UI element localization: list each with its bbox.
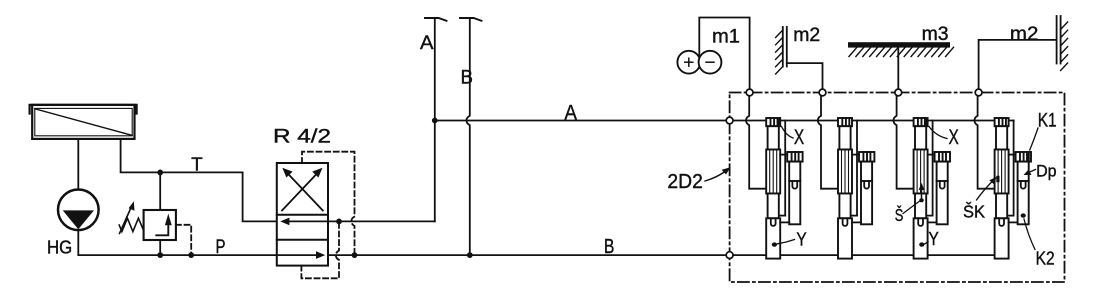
junction pilot to A-side line — [336, 219, 342, 225]
wire tank to pump — [77, 139, 79, 190]
pilot dashed bottom loop — [301, 221, 339, 278]
A manifold line inside box — [730, 120, 1014, 122]
indicator dot K2 in pilot valve 4 — [1021, 213, 1026, 217]
svg-text:X: X — [949, 126, 959, 149]
indicator arrow S in cylinder column 3 — [921, 187, 923, 201]
svg-text:Y: Y — [929, 228, 939, 249]
svg-text:Š: Š — [895, 204, 904, 225]
svg-text:m1: m1 — [712, 25, 740, 47]
indicator dark cell in pilot valve 4 cap (K1) — [1027, 153, 1030, 161]
wire valve middle port to A riser — [328, 220, 435, 222]
svg-text:m2: m2 — [793, 24, 820, 46]
wire m-line into cylinder group 1 — [746, 96, 766, 189]
pilot valve 1 (short element) — [787, 152, 802, 224]
pilot valve 2 (short element) — [859, 152, 874, 224]
port on box left (A) — [726, 117, 733, 124]
wire m-line into cylinder group 3 — [893, 96, 913, 189]
port on box top (m1) — [746, 89, 753, 96]
capped port B riser with jump over A line — [467, 19, 470, 256]
svg-text:X: X — [794, 126, 804, 149]
B manifold line inside box — [730, 254, 1009, 256]
label Y group 1 — [778, 240, 795, 244]
wire branch from A-line to pilot valve 1 — [784, 121, 786, 216]
svg-text:P: P — [216, 237, 226, 258]
pilot valve 3 (short element) — [935, 152, 950, 224]
port on box top (m2) — [819, 89, 826, 96]
svg-text:B: B — [604, 235, 615, 258]
valve middle arrow (to T) — [287, 220, 328, 222]
A line to box — [435, 120, 730, 122]
directional valve R 4/2 — [277, 163, 328, 266]
label Y group 3 — [925, 242, 929, 245]
ceiling anchor m3 — [848, 42, 954, 92]
pilot dashed top loop — [302, 152, 355, 255]
label Dp with leader arrow — [1029, 170, 1036, 173]
svg-text:m2: m2 — [1010, 23, 1039, 45]
junction A riser to A line — [432, 118, 438, 124]
svg-text:Y: Y — [796, 229, 806, 250]
cylinder column 3 (tall element) — [914, 118, 928, 259]
port on box left (B) — [726, 252, 733, 259]
svg-text:A: A — [564, 102, 577, 125]
svg-text:K1: K1 — [1038, 111, 1057, 132]
port on box top (m3) — [895, 89, 902, 96]
junction B riser to B line — [467, 252, 473, 258]
svg-text:HG: HG — [47, 237, 72, 257]
wire m-line into cylinder group 4 — [974, 96, 994, 189]
pump HG — [58, 190, 99, 231]
capped port A riser — [434, 19, 436, 222]
enclosure 2D2 (dash-dot box) — [730, 93, 1065, 283]
wire branch from A-line to pilot valve 4 — [1013, 121, 1015, 216]
svg-text:R 4/2: R 4/2 — [273, 126, 331, 148]
junction relief valve to P — [157, 252, 163, 258]
cylinder column 2 (tall element) — [838, 118, 852, 259]
wall anchor m2 right — [979, 16, 1068, 93]
svg-text:m3: m3 — [922, 23, 949, 45]
cylinder column 4 (tall element) — [995, 118, 1009, 259]
indicator dark block SK in cylinder column 4 — [996, 176, 999, 182]
pilot valve 4 (short element) — [1016, 152, 1031, 224]
cylinder column 1 (tall element) — [766, 118, 780, 259]
svg-text:ŠK: ŠK — [963, 200, 985, 221]
wire branch from A-line to pilot valve 3 — [932, 121, 934, 216]
reservoir tank with cooler diagonal — [30, 105, 137, 139]
label X group 1 — [782, 127, 794, 139]
valve bottom arrow (P through) — [277, 254, 318, 256]
label SK with leader arrow — [977, 181, 994, 201]
label K1 with leader — [1030, 128, 1038, 150]
indicator dot Y group 3 — [919, 242, 924, 246]
label X group 3 — [929, 127, 947, 139]
svg-text:Dp: Dp — [1036, 161, 1057, 180]
wire branch from A-line to pilot valve 2 — [856, 121, 858, 216]
svg-text:T: T — [191, 154, 203, 175]
wire pump to P line — [78, 230, 276, 255]
junction T to relief valve — [157, 170, 163, 176]
svg-text:A: A — [420, 33, 434, 54]
valve crossed arrows — [282, 168, 323, 211]
wire P line valve to B riser and box — [328, 254, 730, 256]
port on box top (m2 right) — [975, 89, 982, 96]
svg-text:K2: K2 — [1036, 248, 1055, 269]
wire tank to T line and down to valve — [121, 139, 277, 222]
label K2 with leader — [1024, 219, 1035, 250]
label S with leader — [903, 202, 919, 214]
wire m-line into cylinder group 2 — [818, 96, 838, 189]
junction pilot to P — [188, 252, 194, 258]
svg-text:2D2: 2D2 — [667, 171, 703, 193]
pressure relief valve — [119, 172, 191, 255]
junction pilot to P-side line — [352, 252, 358, 258]
wall anchor m2 left — [776, 27, 823, 93]
motor m1 (two circles) — [677, 18, 749, 93]
indicator dot Y group 1 — [772, 242, 777, 246]
svg-text:B: B — [461, 67, 474, 89]
